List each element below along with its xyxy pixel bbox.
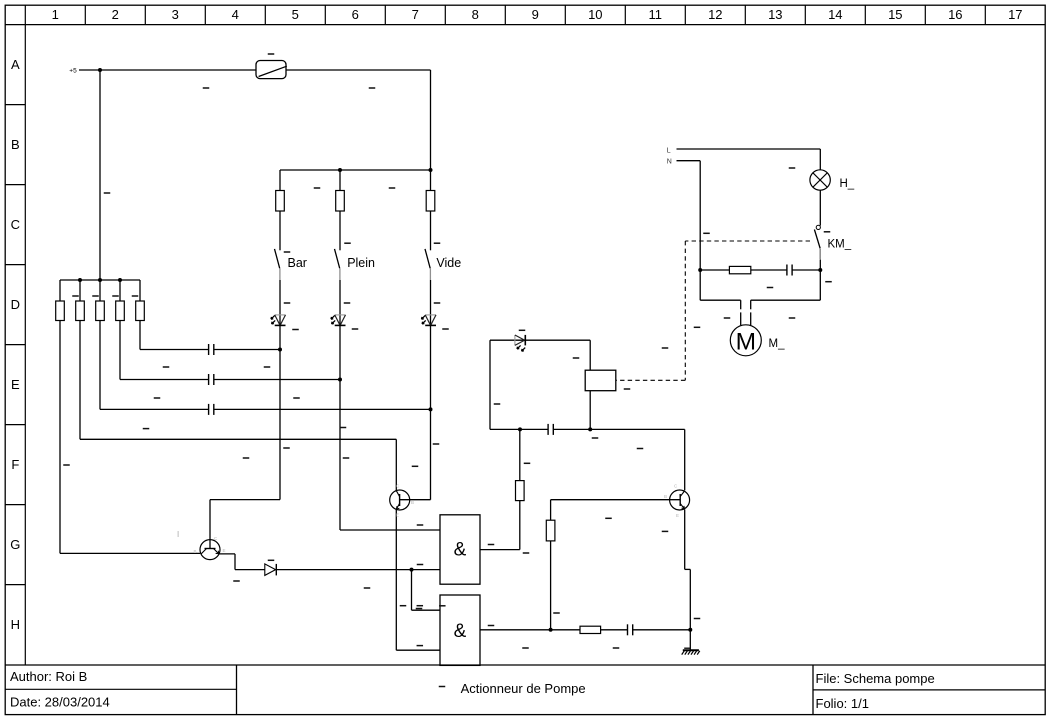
svg-text:E: E <box>396 513 399 518</box>
svg-text:Date: 28/03/2014: Date: 28/03/2014 <box>10 695 110 710</box>
svg-text:File: Schema pompe: File: Schema pompe <box>816 671 935 686</box>
svg-text:1: 1 <box>52 7 59 22</box>
svg-text:L: L <box>667 147 671 154</box>
svg-text:9: 9 <box>532 7 539 22</box>
svg-text:D: D <box>11 297 20 312</box>
svg-text:10: 10 <box>588 7 602 22</box>
svg-text:M: M <box>736 329 756 356</box>
svg-text:3: 3 <box>172 7 179 22</box>
svg-text:H: H <box>11 617 20 632</box>
svg-text:4: 4 <box>232 7 239 22</box>
svg-text:6: 6 <box>352 7 359 22</box>
svg-text:2: 2 <box>112 7 119 22</box>
svg-text:+5: +5 <box>69 68 77 75</box>
svg-text:14: 14 <box>828 7 842 22</box>
svg-text:KM_: KM_ <box>828 239 852 251</box>
svg-text:C: C <box>11 217 20 232</box>
svg-text:B: B <box>664 494 667 499</box>
svg-text:Actionneur de Pompe: Actionneur de Pompe <box>461 681 586 696</box>
svg-text:A: A <box>11 57 20 72</box>
svg-text:Bar: Bar <box>288 256 307 270</box>
svg-text:E: E <box>11 377 20 392</box>
svg-text:&: & <box>454 540 467 561</box>
svg-text:Vide: Vide <box>436 256 461 270</box>
svg-text:B: B <box>411 500 414 505</box>
svg-text:8: 8 <box>472 7 479 22</box>
svg-text:F: F <box>11 457 19 472</box>
svg-text:5: 5 <box>292 7 299 22</box>
svg-text:12: 12 <box>708 7 722 22</box>
svg-text:17: 17 <box>1008 7 1022 22</box>
svg-text:16: 16 <box>948 7 962 22</box>
svg-text:B: B <box>11 137 20 152</box>
svg-text:E: E <box>223 548 226 553</box>
svg-text:Folio: 1/1: Folio: 1/1 <box>816 696 869 711</box>
svg-text:E: E <box>676 513 679 518</box>
svg-text:Author: Roi B: Author: Roi B <box>10 669 87 684</box>
svg-text:&: & <box>454 621 467 642</box>
svg-text:B: B <box>194 549 197 554</box>
svg-text:7: 7 <box>412 7 419 22</box>
svg-text:N: N <box>667 159 672 166</box>
svg-text:11: 11 <box>649 7 663 22</box>
svg-text:13: 13 <box>768 7 782 22</box>
svg-text:M_: M_ <box>769 338 786 350</box>
svg-text:G: G <box>10 537 20 552</box>
svg-text:15: 15 <box>888 7 902 22</box>
svg-text:H_: H_ <box>840 178 855 190</box>
svg-text:Plein: Plein <box>347 256 375 270</box>
